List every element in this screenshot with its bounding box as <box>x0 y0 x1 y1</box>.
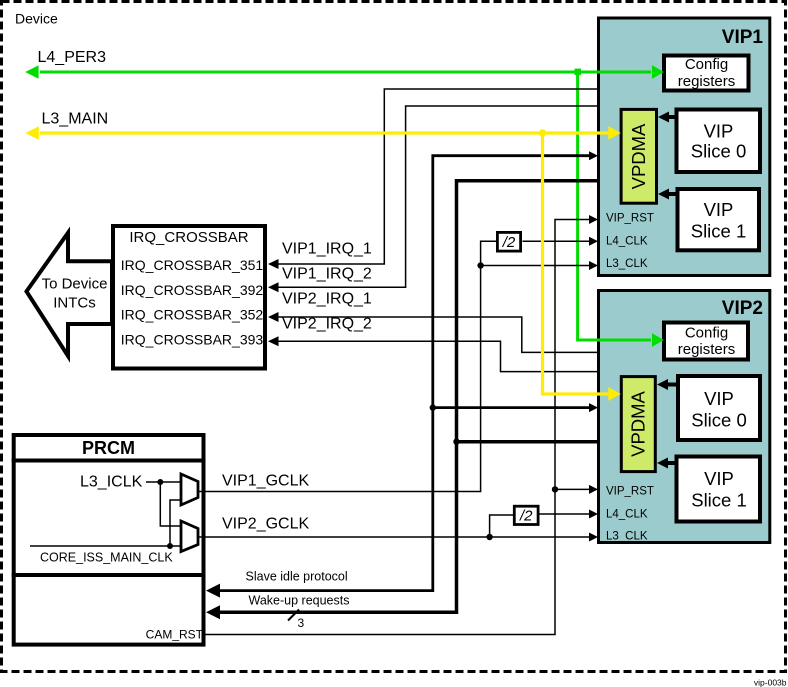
divider /2 VIP2 <box>514 506 538 524</box>
PRCM title separator <box>12 459 206 463</box>
svg-text:VIP1_GCLK: VIP1_GCLK <box>222 473 309 490</box>
svg-text:IRQ_CROSSBAR: IRQ_CROSSBAR <box>129 229 248 246</box>
svg-text:IRQ_CROSSBAR_392: IRQ_CROSSBAR_392 <box>121 282 264 298</box>
VIP2 Slice 1 <box>677 457 761 522</box>
VIP2 block <box>599 291 770 543</box>
svg-text:L3_ICLK: L3_ICLK <box>80 474 143 491</box>
wire VIP2_GCLK / VIP2 L3_CLK <box>198 536 590 538</box>
svg-text:IRQ_CROSSBAR_352: IRQ_CROSSBAR_352 <box>121 307 264 323</box>
svg-text:CORE_ISS_MAIN_CLK: CORE_ISS_MAIN_CLK <box>40 551 173 565</box>
junction VIP2 clock <box>486 534 492 540</box>
svg-text:Slice 1: Slice 1 <box>691 221 747 242</box>
wire CORE_ISS_MAIN_CLK <box>30 545 181 547</box>
svg-text:INTCs: INTCs <box>53 295 96 312</box>
svg-text:L3_CLK: L3_CLK <box>606 258 648 270</box>
wire L4_PER3 vertical branch <box>578 72 651 340</box>
wire L4_PER3 green horizontal <box>40 71 651 74</box>
svg-text:Slice 1: Slice 1 <box>691 490 747 511</box>
bus Slave idle protocol <box>219 156 589 591</box>
svg-text:VIP1: VIP1 <box>722 27 764 48</box>
svg-text:VIP_RST: VIP_RST <box>606 486 654 498</box>
junction L3_ICLK <box>157 479 163 485</box>
svg-text:PRCM: PRCM <box>82 438 135 458</box>
svg-text:L3_MAIN: L3_MAIN <box>42 111 109 128</box>
PRCM lower separator <box>12 573 206 577</box>
block arrow To Device INTCs <box>27 233 113 356</box>
wire slave idle to VIP2 <box>433 406 589 409</box>
VIP2 config registers <box>664 323 748 360</box>
svg-text:IRQ_CROSSBAR_351: IRQ_CROSSBAR_351 <box>121 257 264 273</box>
svg-text:VIP1_IRQ_1: VIP1_IRQ_1 <box>282 241 372 258</box>
svg-text:VIP: VIP <box>704 120 734 141</box>
svg-text:To Device: To Device <box>42 276 108 293</box>
VIP1 Slice 1 <box>678 189 760 250</box>
arrowhead L3_MAIN into VIP1 VPDMA <box>608 126 621 140</box>
arrowhead L4_PER3 left <box>25 65 38 78</box>
wire VIP2 Slice0 to VPDMA <box>666 383 678 387</box>
wire VIP1 Slice0 to VPDMA <box>667 115 676 119</box>
wire VIP2 L4_CLK <box>540 513 591 515</box>
svg-text:VIP: VIP <box>704 468 734 489</box>
junction VIP1 L3_CLK <box>477 262 483 268</box>
wire VIP1_IRQ_2 <box>276 106 598 287</box>
junction slave idle VIP2 <box>430 404 436 410</box>
mux M1 <box>181 474 198 505</box>
wire VIP2_IRQ_1 <box>276 317 599 352</box>
wire VIP2 Slice1 to VPDMA <box>666 461 678 465</box>
VIP2 VPDMA <box>621 377 655 472</box>
svg-text:3: 3 <box>298 616 305 630</box>
svg-text:VIP_RST: VIP_RST <box>606 213 654 225</box>
wire CORE_ISS branch to mux1 <box>170 500 181 546</box>
svg-text:L4_PER3: L4_PER3 <box>38 49 107 66</box>
VIP1 config registers <box>664 56 749 91</box>
junction CAM_RST to VIP2 <box>552 486 558 492</box>
svg-text:L4_CLK: L4_CLK <box>606 236 648 248</box>
svg-text:Slice 0: Slice 0 <box>691 409 747 430</box>
wire L3_ICLK to mux1 <box>146 481 181 483</box>
svg-text:IRQ_CROSSBAR_393: IRQ_CROSSBAR_393 <box>121 332 264 348</box>
svg-text:VIP2_GCLK: VIP2_GCLK <box>222 516 309 533</box>
svg-text:VIP: VIP <box>704 388 734 409</box>
wire VIP1_IRQ_1 <box>276 89 598 264</box>
bus Wake-up requests <box>219 181 599 613</box>
wire VIP2_IRQ_2 <box>276 341 599 371</box>
wire CAM_RST <box>204 220 590 635</box>
junction wake-up VIP2 <box>453 439 459 445</box>
svg-text:L4_CLK: L4_CLK <box>606 509 648 521</box>
arrowhead L4_PER3 into VIP2 Config <box>652 333 664 347</box>
VIP1 block <box>599 18 770 276</box>
svg-text:vip-003b: vip-003b <box>754 678 787 687</box>
svg-text:Device: Device <box>15 11 58 27</box>
svg-text:CAM_RST: CAM_RST <box>146 628 204 642</box>
svg-text:Slice 0: Slice 0 <box>691 141 747 162</box>
VIP1 Slice 0 <box>677 110 761 173</box>
svg-text:/2: /2 <box>502 234 516 251</box>
mux M2 <box>181 521 198 552</box>
IRQ_CROSSBAR box <box>113 226 265 369</box>
VIP1 VPDMA <box>621 109 656 203</box>
svg-text:Slave idle protocol: Slave idle protocol <box>246 570 348 584</box>
bus width slash <box>288 610 299 621</box>
wire L3_MAIN vertical branch <box>543 133 610 394</box>
wire L3_ICLK branch to mux2 <box>160 482 181 526</box>
junction CORE_ISS_MAIN_CLK <box>167 543 173 549</box>
svg-text:/2: /2 <box>519 507 533 524</box>
wire VIP1 Slice1 to VPDMA <box>667 192 678 196</box>
wire VIP1_GCLK <box>198 241 496 491</box>
wire VIP2 /2 input <box>490 515 513 537</box>
svg-text:Wake-up requests: Wake-up requests <box>249 594 350 608</box>
junction L4_PER3 branch <box>575 69 582 76</box>
svg-text:L3_CLK: L3_CLK <box>606 531 648 543</box>
svg-text:VPDMA: VPDMA <box>628 390 649 456</box>
VIP2 Slice 0 <box>678 376 760 440</box>
wire wake-up to VIP2 <box>457 440 599 444</box>
svg-text:Config: Config <box>685 325 728 342</box>
wire VIP1 L4_CLK <box>523 240 591 242</box>
PRCM box <box>14 435 204 645</box>
divider /2 VIP1 <box>497 232 520 251</box>
svg-text:registers: registers <box>678 341 736 358</box>
wire VIP1 L3_CLK <box>481 265 590 267</box>
wire L3_MAIN yellow horizontal <box>40 131 609 134</box>
svg-text:VIP2_IRQ_2: VIP2_IRQ_2 <box>282 316 372 333</box>
junction L3_MAIN branch <box>539 129 547 137</box>
arrowhead L4_PER3 into VIP1 Config <box>652 65 664 79</box>
svg-text:registers: registers <box>678 73 736 90</box>
svg-text:VPDMA: VPDMA <box>628 123 649 189</box>
wire VIP2 VIP_RST <box>555 488 590 490</box>
arrowhead L3_MAIN left <box>25 126 38 139</box>
svg-text:Config: Config <box>685 56 728 73</box>
svg-text:VIP2: VIP2 <box>722 298 763 319</box>
arrowhead L3_MAIN into VIP2 VPDMA <box>608 387 621 401</box>
svg-text:VIP1_IRQ_2: VIP1_IRQ_2 <box>282 266 372 283</box>
svg-text:VIP2_IRQ_1: VIP2_IRQ_1 <box>282 291 372 308</box>
svg-text:VIP: VIP <box>704 199 734 220</box>
